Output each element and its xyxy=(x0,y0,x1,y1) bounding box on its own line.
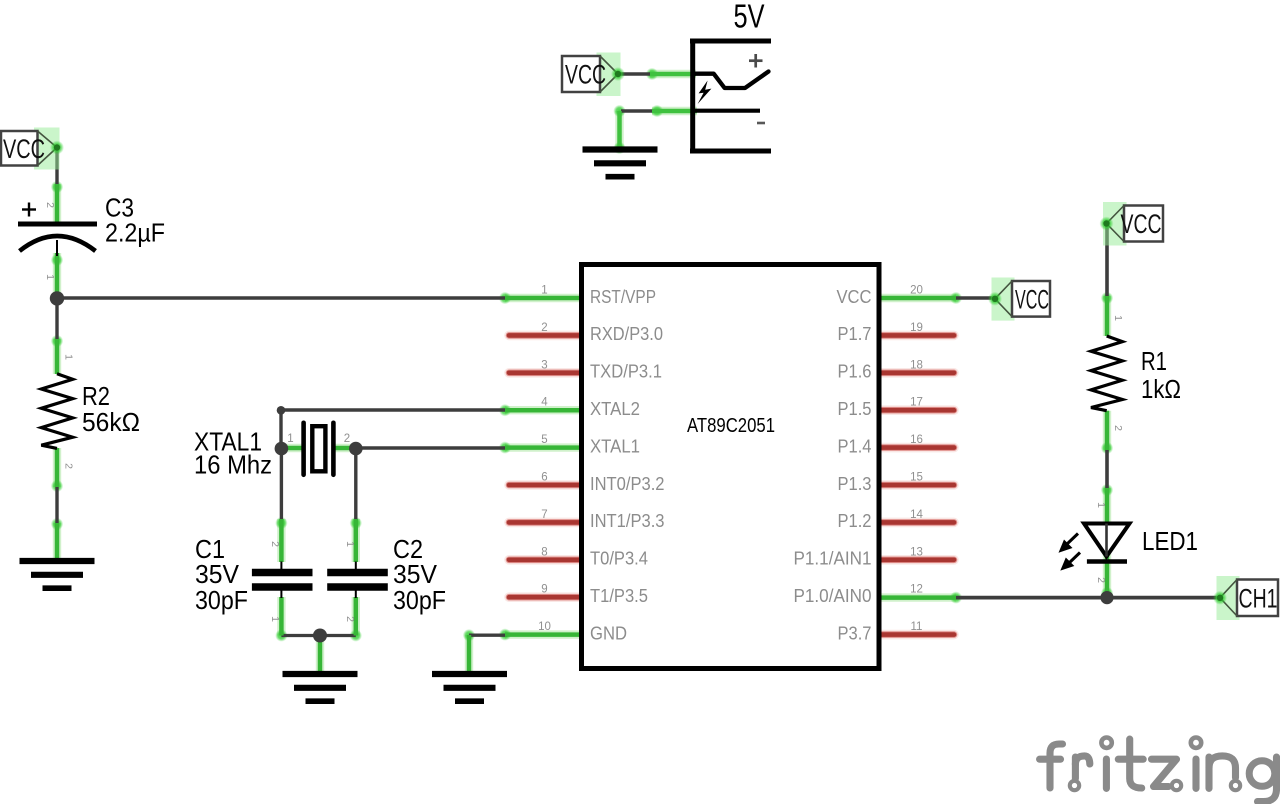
svg-text:5V: 5V xyxy=(734,0,765,35)
svg-text:16: 16 xyxy=(910,434,923,446)
svg-text:RXD/P3.0: RXD/P3.0 xyxy=(590,324,663,344)
svg-text:13: 13 xyxy=(910,546,923,558)
svg-text:1: 1 xyxy=(287,433,293,445)
svg-text:2: 2 xyxy=(1095,577,1107,583)
svg-text:4: 4 xyxy=(541,397,548,409)
svg-text:VCC: VCC xyxy=(1121,209,1162,239)
svg-text:P3.7: P3.7 xyxy=(838,623,872,643)
svg-text:P1.6: P1.6 xyxy=(838,362,872,382)
svg-text:6: 6 xyxy=(541,472,547,484)
svg-text:7: 7 xyxy=(541,509,547,521)
svg-text:P1.0/AIN0: P1.0/AIN0 xyxy=(794,586,872,606)
svg-text:P1.4: P1.4 xyxy=(838,436,872,456)
svg-text:VCC: VCC xyxy=(565,60,606,90)
svg-text:INT0/P3.2: INT0/P3.2 xyxy=(590,474,665,494)
svg-text:1: 1 xyxy=(541,285,547,297)
svg-text:RST/VPP: RST/VPP xyxy=(590,287,656,307)
svg-text:1: 1 xyxy=(1095,502,1107,508)
svg-text:XTAL2: XTAL2 xyxy=(590,399,640,419)
svg-text:P1.3: P1.3 xyxy=(838,474,872,494)
svg-text:INT1/P3.3: INT1/P3.3 xyxy=(590,511,665,531)
svg-text:15: 15 xyxy=(910,472,923,484)
svg-text:LED1: LED1 xyxy=(1142,526,1198,556)
svg-text:R1: R1 xyxy=(1141,346,1167,376)
svg-text:5: 5 xyxy=(541,434,547,446)
svg-text:1: 1 xyxy=(344,541,356,547)
svg-text:30pF: 30pF xyxy=(195,585,248,615)
svg-text:2: 2 xyxy=(63,463,75,469)
svg-text:VCC: VCC xyxy=(1015,284,1049,314)
svg-text:19: 19 xyxy=(910,322,923,334)
svg-text:1: 1 xyxy=(1112,315,1124,321)
svg-text:20: 20 xyxy=(910,285,923,297)
svg-text:VCC: VCC xyxy=(3,134,45,164)
svg-text:16 Mhz: 16 Mhz xyxy=(194,450,272,480)
svg-text:18: 18 xyxy=(910,359,923,371)
svg-text:8: 8 xyxy=(541,546,547,558)
svg-text:1: 1 xyxy=(63,354,75,360)
svg-text:AT89C2051: AT89C2051 xyxy=(687,414,775,437)
svg-text:56kΩ: 56kΩ xyxy=(82,407,140,437)
svg-text:3: 3 xyxy=(541,359,547,371)
svg-text:2: 2 xyxy=(344,433,350,445)
svg-text:T1/P3.5: T1/P3.5 xyxy=(590,586,648,606)
svg-text:2: 2 xyxy=(541,322,547,334)
svg-text:1: 1 xyxy=(44,274,56,280)
svg-text:2.2µF: 2.2µF xyxy=(105,218,165,248)
svg-text:XTAL1: XTAL1 xyxy=(590,436,640,456)
svg-text:2: 2 xyxy=(269,541,281,547)
svg-text:10: 10 xyxy=(538,621,551,633)
svg-text:P1.1/AIN1: P1.1/AIN1 xyxy=(794,549,872,569)
svg-text:14: 14 xyxy=(910,509,923,521)
svg-text:T0/P3.4: T0/P3.4 xyxy=(590,549,648,569)
svg-text:1kΩ: 1kΩ xyxy=(1141,374,1181,404)
svg-text:2: 2 xyxy=(44,202,56,208)
svg-text:CH1: CH1 xyxy=(1239,583,1278,613)
svg-text:2: 2 xyxy=(344,616,356,622)
svg-text:TXD/P3.1: TXD/P3.1 xyxy=(590,362,662,382)
svg-text:2: 2 xyxy=(1112,425,1124,431)
svg-text:P1.2: P1.2 xyxy=(838,511,872,531)
svg-text:P1.7: P1.7 xyxy=(838,324,872,344)
svg-text:30pF: 30pF xyxy=(393,585,446,615)
svg-text:12: 12 xyxy=(910,584,923,596)
svg-text:1: 1 xyxy=(269,616,281,622)
svg-text:9: 9 xyxy=(541,584,547,596)
svg-text:GND: GND xyxy=(590,623,627,643)
svg-text:17: 17 xyxy=(910,397,923,409)
svg-text:VCC: VCC xyxy=(837,287,872,307)
svg-text:11: 11 xyxy=(911,621,923,633)
svg-text:P1.5: P1.5 xyxy=(838,399,872,419)
